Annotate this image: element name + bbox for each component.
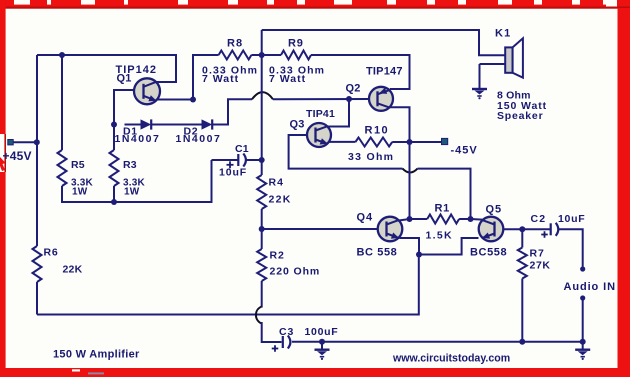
label website: [392, 353, 510, 365]
wire Q3 base loop: [289, 135, 403, 169]
wire Q4 emitter link: [400, 238, 420, 255]
resistor R6: [33, 246, 83, 282]
ground speaker: [472, 81, 487, 99]
svg-text:1W: 1W: [124, 187, 140, 198]
wire C2 to audio terminal: [558, 229, 583, 266]
svg-text:22K: 22K: [269, 194, 292, 206]
wire R5 bottom: [62, 160, 212, 202]
svg-text:1W: 1W: [72, 187, 88, 198]
junction feedback node: [259, 226, 265, 232]
junction Q2 base node: [346, 96, 352, 102]
svg-text:Q3: Q3: [290, 119, 305, 131]
node audio terminal top: [580, 266, 585, 271]
junction audio ground node: [580, 339, 586, 345]
wire bottom rail: [37, 255, 419, 315]
wire output column mid: [261, 55, 263, 160]
ground audio input: [575, 342, 590, 360]
wire Q4 collector: [399, 219, 410, 221]
wire R3 bottom: [113, 186, 115, 202]
capacitor C2: [531, 213, 586, 238]
resistor R2: [257, 249, 320, 281]
junction R7 top: [519, 226, 525, 232]
svg-text:220 Ohm: 220 Ohm: [270, 266, 321, 278]
wire emitter to R8: [193, 55, 219, 100]
svg-text:1N4007: 1N4007: [115, 133, 161, 145]
resistor R10: [348, 125, 394, 164]
wire left supply column lower: [36, 142, 38, 246]
wire D2 up to Q2 base line: [213, 99, 253, 124]
junction +45V tap: [34, 139, 40, 145]
wire R5 column: [61, 55, 63, 150]
wire Q3 emitter to R10: [328, 141, 355, 143]
wire column to R4: [261, 160, 263, 175]
svg-text:R9: R9: [288, 38, 304, 50]
svg-text:BC 558: BC 558: [357, 247, 398, 259]
svg-text:R5: R5: [71, 159, 85, 171]
wire output column upper: [261, 30, 263, 55]
resistor R5: [58, 150, 94, 198]
wire hop over output column: [252, 92, 273, 99]
svg-text:TIP41: TIP41: [306, 108, 335, 120]
wire left supply column upper: [36, 55, 38, 142]
resistor R1: [410, 203, 471, 242]
wire feedback to Q4 base: [262, 228, 378, 230]
junction R3 bottom: [111, 199, 117, 205]
svg-text:R6: R6: [44, 247, 59, 259]
svg-text:R4: R4: [269, 177, 284, 189]
wire to Q2 base: [273, 98, 369, 100]
svg-text:33 Ohm: 33 Ohm: [348, 151, 394, 163]
svg-text:BC558: BC558: [470, 247, 507, 259]
svg-text:Audio IN: Audio IN: [564, 281, 616, 293]
node +45V terminal: [3, 140, 37, 164]
wire ground rail: [292, 341, 583, 343]
svg-text:Q2: Q2: [346, 83, 361, 95]
wire column to C3: [262, 322, 282, 342]
junction emitter tail node: [416, 252, 422, 258]
speaker K1: [480, 28, 548, 123]
wire R4 to R2: [261, 209, 263, 249]
wire Q2 collector: [390, 107, 410, 142]
svg-text:-45V: -45V: [451, 145, 478, 157]
svg-text:C1: C1: [235, 143, 249, 155]
label audio in: [564, 281, 616, 293]
wire column hop over bottom rail: [256, 307, 262, 324]
svg-text:1.5K: 1.5K: [426, 230, 453, 242]
svg-text:10uF: 10uF: [558, 213, 585, 225]
capacitor C1: [212, 143, 262, 179]
svg-text:R1: R1: [435, 203, 450, 215]
svg-text:7 Watt: 7 Watt: [269, 73, 306, 85]
svg-text:Q4: Q4: [357, 212, 373, 224]
svg-text:+45V: +45V: [3, 149, 32, 163]
wire emitter link to Q5: [419, 238, 479, 255]
wire Q3 collector to Q2 base: [328, 99, 349, 127]
node -45V terminal: [442, 138, 478, 156]
wire R7 column lower: [521, 279, 523, 342]
svg-text:10uF: 10uF: [219, 167, 247, 179]
transistor Q1: [116, 64, 161, 104]
wire R2 down: [261, 281, 263, 308]
resistor R9: [269, 38, 325, 86]
transistor Q3: [290, 108, 336, 147]
junction R1 left node: [407, 216, 413, 222]
diode D2: [176, 119, 222, 145]
wire -45V column: [409, 142, 411, 219]
wire R10 to -45V: [392, 141, 441, 143]
svg-text:27K: 27K: [530, 260, 551, 272]
wire audio ground leg: [582, 298, 584, 342]
resistor R7: [518, 248, 551, 279]
capacitor C3: [272, 326, 339, 352]
wire hop under -45V column: [403, 169, 418, 173]
svg-text:Speaker: Speaker: [497, 110, 543, 122]
wire output rail to speaker: [262, 30, 505, 55]
svg-text:www.circuitstoday.com: www.circuitstoday.com: [392, 353, 510, 365]
svg-text:100uF: 100uF: [305, 326, 339, 338]
diode D1: [115, 119, 161, 145]
transistor Q5: [470, 204, 507, 259]
svg-text:R10: R10: [365, 125, 390, 137]
svg-text:TIP147: TIP147: [366, 66, 403, 78]
resistor R4: [257, 175, 291, 209]
wire loop to R1 right node: [418, 169, 471, 219]
resistor R3: [110, 150, 146, 198]
wire R6 to bottom rail: [36, 282, 38, 315]
junction -45V node: [407, 139, 413, 145]
wire Q1 emitter: [156, 99, 193, 101]
svg-text:1N4007: 1N4007: [176, 133, 222, 145]
junction R1 right node: [468, 216, 474, 222]
svg-text:R2: R2: [270, 250, 285, 262]
svg-text:R7: R7: [530, 248, 545, 260]
resistor R8: [202, 38, 258, 86]
svg-text:C2: C2: [531, 213, 547, 225]
wire R7 column upper: [521, 229, 523, 247]
svg-text:K1: K1: [495, 28, 511, 40]
transistor Q2: [346, 66, 403, 111]
wire R9 to Q2 emitter: [311, 55, 410, 89]
wire Q5 base to C2: [503, 228, 550, 230]
svg-text:7 Watt: 7 Watt: [202, 73, 239, 85]
label title: [53, 349, 140, 361]
junction R7 bottom: [519, 339, 525, 345]
junction R5 top: [59, 52, 65, 58]
svg-text:R8: R8: [227, 38, 243, 50]
wire +45V rail to Q1 collector: [37, 55, 176, 82]
junction Q1 emitter node: [190, 97, 196, 103]
wire R8 to output column: [251, 54, 281, 56]
node audio terminal bottom: [580, 295, 585, 300]
svg-text:C3: C3: [279, 326, 294, 338]
svg-text:R3: R3: [123, 159, 137, 171]
svg-text:Q5: Q5: [486, 204, 502, 216]
ground C3: [315, 342, 330, 360]
junction D1 anode: [111, 122, 117, 128]
wire D1 to D2: [152, 124, 202, 126]
wire Q1 base column: [114, 90, 135, 150]
junction output node top: [259, 52, 265, 58]
svg-text:150 W Amplifier: 150 W Amplifier: [53, 349, 140, 361]
junction C1 node: [259, 157, 265, 163]
wire Q5 collector: [471, 218, 483, 221]
wire D1-D2 row: [125, 124, 141, 126]
junction C3 ground node: [319, 339, 325, 345]
svg-text:Q1: Q1: [117, 73, 132, 85]
svg-text:22K: 22K: [63, 264, 83, 276]
transistor Q4: [357, 212, 403, 259]
